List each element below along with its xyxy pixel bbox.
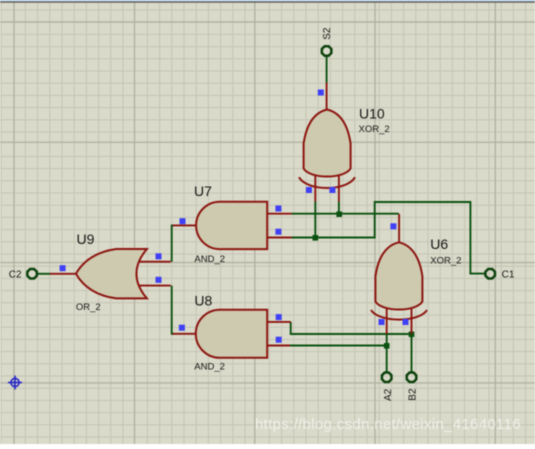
- svg-text:https://blog.csdn.net/weixin_4: https://blog.csdn.net/weixin_41640116: [255, 416, 521, 433]
- svg-text:C2: C2: [9, 270, 22, 281]
- svg-text:AND_2: AND_2: [194, 361, 225, 372]
- svg-text:AND_2: AND_2: [194, 254, 225, 265]
- svg-text:XOR_2: XOR_2: [359, 124, 390, 135]
- svg-text:U6: U6: [430, 236, 448, 252]
- svg-text:XOR_2: XOR_2: [430, 256, 461, 267]
- svg-text:A2: A2: [383, 388, 394, 401]
- svg-text:U10: U10: [359, 105, 385, 121]
- svg-text:U8: U8: [194, 293, 212, 309]
- svg-text:U9: U9: [77, 231, 95, 247]
- svg-text:U7: U7: [194, 183, 212, 199]
- svg-text:S2: S2: [322, 27, 333, 40]
- svg-text:OR_2: OR_2: [76, 302, 101, 313]
- svg-text:B2: B2: [407, 388, 418, 401]
- svg-text:C1: C1: [502, 270, 515, 281]
